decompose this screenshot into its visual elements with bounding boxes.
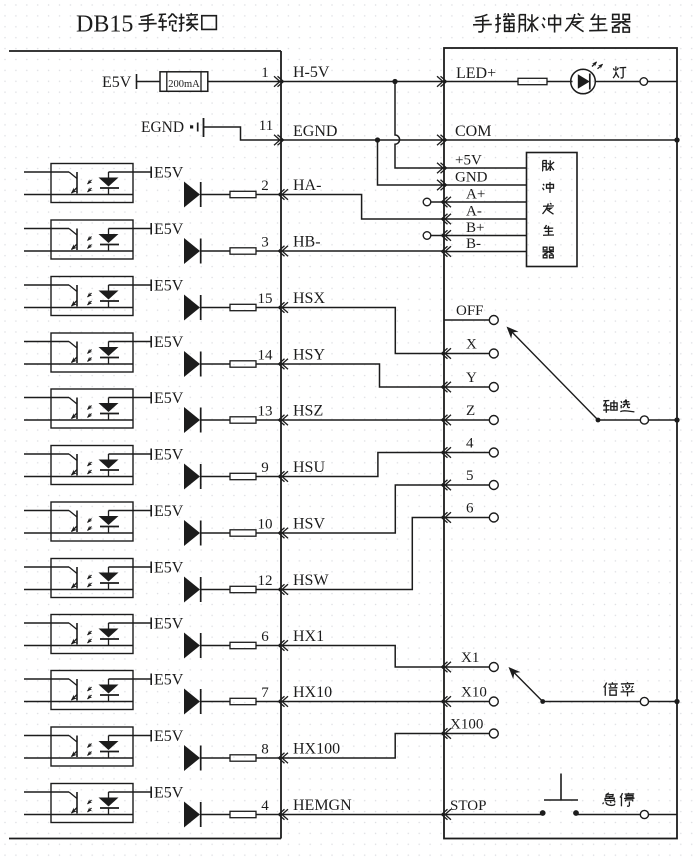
pin 11 chevron	[278, 135, 284, 145]
wire GND to encoder	[444, 184, 527, 186]
svg-text:DB15: DB15	[76, 12, 133, 38]
junction COM at right edge	[674, 137, 679, 142]
svg-text:Y: Y	[466, 370, 477, 386]
emergency button SB1	[540, 810, 546, 816]
right pin A+ chevron	[442, 197, 448, 207]
resistor R8	[230, 586, 256, 592]
svg-text:E5V: E5V	[154, 334, 184, 351]
svg-text:HSV: HSV	[293, 516, 325, 533]
wire HEMGN to right connector	[281, 814, 444, 816]
wire X to contact	[444, 353, 489, 355]
contact circle X100	[489, 729, 498, 738]
diode D6	[184, 464, 200, 490]
wire E5V to fuse	[137, 81, 161, 83]
svg-text:E5V: E5V	[102, 74, 132, 91]
E5V tap of channel HX10	[150, 674, 152, 686]
optocoupler U11 (HX100)	[24, 735, 69, 737]
svg-text:E5V: E5V	[154, 616, 184, 633]
contact circle Y	[489, 383, 498, 392]
svg-text:E5V: E5V	[154, 560, 184, 577]
wire EGND to COM	[281, 139, 444, 141]
svg-text:B-: B-	[466, 236, 481, 252]
svg-text:COM: COM	[455, 123, 491, 140]
optocoupler U5 (HSZ)	[24, 397, 69, 399]
wire STOP to button	[444, 814, 543, 816]
wire X1 to contact	[444, 666, 489, 668]
wire EGND jog to pin 11	[204, 127, 282, 140]
right pin B+ chevron	[442, 230, 448, 240]
resistor R10	[230, 698, 256, 704]
svg-text:4: 4	[466, 436, 474, 452]
svg-text:EGND: EGND	[293, 123, 337, 140]
svg-text:E5V: E5V	[154, 447, 184, 464]
label lamp	[613, 66, 626, 78]
svg-text:A+: A+	[466, 187, 485, 203]
svg-text:9: 9	[261, 460, 269, 476]
lamp terminal circle	[640, 78, 648, 86]
optocoupler U6 (HSU)	[24, 453, 69, 455]
wire +5V to encoder	[444, 167, 527, 169]
right pin COM chevron	[441, 135, 447, 145]
svg-text:HB-: HB-	[293, 234, 321, 251]
E5V tap of channel HA-	[150, 167, 152, 179]
svg-text:LED+: LED+	[456, 65, 496, 82]
diode D10	[184, 689, 200, 715]
svg-text:6: 6	[466, 501, 474, 517]
terminal circle A+	[423, 198, 431, 206]
pin 9 chevron	[279, 471, 285, 481]
right pin 4 chevron	[442, 447, 448, 457]
wire lamp to right edge	[648, 81, 677, 83]
wire HX10 to right connector	[281, 701, 444, 703]
LED light arrows	[592, 62, 597, 67]
E5V tap of channel HSW	[150, 562, 152, 574]
contact circle X	[489, 349, 498, 358]
svg-text:HSX: HSX	[293, 290, 325, 307]
wire 4 to contact	[444, 452, 489, 454]
pin 15 chevron	[279, 302, 285, 312]
svg-text:3: 3	[261, 235, 269, 251]
resistor R_led	[444, 81, 518, 83]
svg-text:B+: B+	[466, 220, 484, 236]
wire HSW to right connector	[281, 518, 444, 590]
right pin GND chevron	[441, 180, 447, 190]
LED lamp D_L	[571, 69, 596, 94]
svg-text:6: 6	[261, 629, 269, 645]
emergency terminal circle	[640, 810, 648, 818]
svg-text:A-: A-	[466, 204, 482, 220]
svg-text:E5V: E5V	[154, 165, 184, 182]
E5V tap of channel HSY	[150, 336, 152, 348]
wire wiper to terminal	[543, 701, 641, 703]
svg-text:10: 10	[258, 517, 273, 533]
E5V tap of channel HX100	[150, 730, 152, 742]
right pin X1 chevron	[442, 662, 448, 672]
junction on H-5V line	[392, 79, 397, 84]
optocoupler U8 (HSW)	[24, 566, 69, 568]
E5V tap of channel HSX	[150, 280, 152, 292]
wire HB- to right connector	[281, 250, 444, 252]
pin 12 chevron	[279, 584, 285, 594]
contact circle Z	[489, 416, 498, 425]
E5V tap of channel HEMGN	[150, 787, 152, 799]
wire wiper to terminal	[598, 419, 640, 421]
wire fuse to pin 1	[208, 81, 281, 83]
label multiplier	[604, 682, 618, 696]
svg-text:GND: GND	[455, 170, 488, 186]
svg-text:12: 12	[258, 573, 273, 589]
wire 5 to contact	[444, 484, 489, 486]
optocoupler U3 (HSX)	[24, 284, 69, 286]
svg-text:14: 14	[258, 348, 274, 364]
right pin X100 chevron	[442, 728, 448, 738]
resistor R12	[230, 811, 256, 817]
svg-text:X1: X1	[461, 650, 479, 666]
diode D12	[184, 802, 200, 828]
optocoupler U9 (HX1)	[24, 622, 69, 624]
right pin B- chevron	[442, 246, 448, 256]
svg-text:HSU: HSU	[293, 459, 325, 476]
wire OFF to contact	[444, 319, 489, 321]
svg-text:OFF: OFF	[456, 303, 484, 319]
junction multiplier at right edge	[674, 699, 679, 704]
right pin +5V chevron	[441, 163, 447, 173]
wire terminal to right edge	[649, 814, 678, 816]
svg-text:HX10: HX10	[293, 684, 332, 701]
wire H-5V branch down to +5V (with hop over EGND)	[395, 82, 444, 169]
wire HSY to right connector	[281, 364, 444, 387]
label emergency-stop	[603, 793, 616, 806]
wire Y to contact	[444, 386, 489, 388]
terminal circle B+	[423, 232, 431, 240]
svg-text:E5V: E5V	[154, 785, 184, 802]
diode D7	[184, 520, 200, 546]
wire HSV to right connector	[281, 485, 444, 533]
title: hand pulse generator	[473, 14, 492, 31]
contact circle 4	[489, 448, 498, 457]
optocoupler U7 (HSV)	[24, 510, 69, 512]
optocoupler U10 (HX10)	[24, 678, 69, 680]
svg-text:E5V: E5V	[154, 221, 184, 238]
contact circle X10	[489, 697, 498, 706]
svg-text:E5V: E5V	[154, 728, 184, 745]
wire Z to contact	[444, 419, 489, 421]
E5V supply tap bar	[136, 74, 138, 89]
svg-text:E5V: E5V	[154, 672, 184, 689]
optocoupler U12 (HEMGN)	[24, 791, 69, 793]
svg-text:E5V: E5V	[154, 278, 184, 295]
svg-text:X10: X10	[461, 685, 487, 701]
DB15 connector frame bottom edge	[9, 838, 281, 840]
pin 4 chevron	[279, 809, 285, 819]
svg-text:11: 11	[259, 118, 273, 134]
pin 6 chevron	[279, 640, 285, 650]
E5V tap of channel HSZ	[150, 392, 152, 404]
pin 14 chevron	[279, 359, 285, 369]
resistor R4	[230, 361, 256, 367]
E5V tap of channel HB-	[150, 223, 152, 235]
encoder block (pulse generator)	[527, 153, 578, 267]
junction axis at right edge	[674, 417, 679, 422]
contact circle OFF	[489, 316, 498, 325]
resistor R1	[230, 191, 256, 197]
wire 6 to contact	[444, 517, 489, 519]
svg-text:E5V: E5V	[154, 390, 184, 407]
right pin LED+ chevron	[441, 76, 447, 86]
right pin STOP chevron	[442, 809, 448, 819]
optocoupler U4 (HSY)	[24, 341, 69, 343]
E5V tap of channel HSU	[150, 449, 152, 461]
E5V tap of channel HX1	[150, 618, 152, 630]
multiplier wiper	[540, 699, 545, 704]
svg-text:8: 8	[261, 742, 269, 758]
diode D1	[184, 182, 200, 208]
wire A+ to encoder	[444, 201, 527, 203]
wire X10 to contact	[444, 701, 489, 703]
right pin X10 chevron	[442, 696, 448, 706]
svg-text:1: 1	[261, 65, 269, 81]
wire A- to encoder	[444, 218, 527, 220]
wire button to terminal	[576, 814, 640, 816]
contact circle X1	[489, 663, 498, 672]
pin 10 chevron	[279, 528, 285, 538]
pin 1 chevron	[278, 76, 284, 86]
resistor R9	[230, 642, 256, 648]
svg-text:X100: X100	[450, 717, 483, 733]
resistor R6	[230, 473, 256, 479]
svg-text:200mA: 200mA	[168, 79, 200, 90]
svg-text:13: 13	[258, 404, 273, 420]
label axis-select	[603, 400, 617, 413]
svg-text:STOP: STOP	[450, 798, 486, 814]
diode D2	[184, 238, 200, 264]
axis selector terminal circle	[640, 416, 648, 424]
svg-text:+5V: +5V	[455, 153, 482, 169]
svg-text:E5V: E5V	[154, 503, 184, 520]
svg-text:H-5V: H-5V	[293, 64, 330, 81]
contact circle 6	[489, 513, 498, 522]
svg-text:HX100: HX100	[293, 741, 340, 758]
wire X100 to contact	[444, 733, 489, 735]
pin 2 chevron	[279, 189, 285, 199]
svg-text:5: 5	[466, 468, 474, 484]
pin 3 chevron	[279, 246, 285, 256]
COM rail wire	[444, 139, 677, 141]
EGND ground symbol	[190, 125, 193, 128]
axis selector wiper	[596, 418, 601, 423]
svg-text:15: 15	[258, 291, 273, 307]
pin 7 chevron	[279, 696, 285, 706]
resistor R7	[230, 530, 256, 536]
wire B- to encoder	[444, 251, 527, 253]
resistor R11	[230, 755, 256, 761]
resistor R5	[230, 417, 256, 423]
svg-text:HA-: HA-	[293, 177, 321, 194]
svg-text:X: X	[466, 337, 477, 353]
svg-text:HEMGN: HEMGN	[293, 797, 352, 814]
svg-text:Z: Z	[466, 403, 475, 419]
resistor R2	[230, 248, 256, 254]
diode D11	[184, 745, 200, 771]
wire HX1 to right connector	[281, 646, 444, 668]
right pin Y chevron	[442, 382, 448, 392]
diode D4	[184, 351, 200, 377]
diode D8	[184, 577, 200, 603]
resistor R3	[230, 304, 256, 310]
diode D9	[184, 633, 200, 659]
right pin A- chevron	[442, 214, 448, 224]
optocoupler U1 (HA-)	[24, 171, 69, 173]
diode D5	[184, 407, 200, 433]
right pin Z chevron	[442, 415, 448, 425]
svg-text:4: 4	[261, 798, 269, 814]
wire HSU to right connector	[281, 453, 444, 477]
DB15 connector bus (right edge)	[280, 51, 282, 839]
svg-text:7: 7	[261, 685, 269, 701]
wire HSZ to right connector	[281, 419, 444, 421]
wire HA- to right connector	[281, 195, 444, 220]
svg-text:HSZ: HSZ	[293, 403, 323, 420]
diode D3	[184, 295, 200, 321]
fuse F1 200mA	[160, 72, 208, 92]
multiplier terminal circle	[640, 697, 648, 705]
wire terminal to right edge	[649, 701, 678, 703]
pin 13 chevron	[279, 415, 285, 425]
junction on EGND line	[375, 137, 380, 142]
wire B+ to encoder	[444, 235, 527, 237]
right pin 5 chevron	[442, 480, 448, 490]
right pin 6 chevron	[442, 512, 448, 522]
wire H-5V to LED+	[281, 81, 444, 83]
optocoupler U2 (HB-)	[24, 228, 69, 230]
svg-text:HSW: HSW	[293, 572, 329, 589]
pin 8 chevron	[279, 753, 285, 763]
wire EGND branch down to GND	[378, 140, 445, 185]
svg-text:2: 2	[261, 178, 269, 194]
wire terminal to right edge	[649, 419, 678, 421]
svg-text:HX1: HX1	[293, 628, 324, 645]
wire HX100 to right connector	[281, 734, 444, 759]
wire HSX to right connector	[281, 308, 444, 354]
right pin X chevron	[442, 348, 448, 358]
contact circle 5	[489, 481, 498, 490]
svg-text:EGND: EGND	[141, 119, 184, 136]
pulse generator box	[444, 48, 677, 839]
svg-text:HSY: HSY	[293, 347, 325, 364]
E5V tap of channel HSV	[150, 505, 152, 517]
DB15 connector frame top edge	[9, 50, 281, 52]
